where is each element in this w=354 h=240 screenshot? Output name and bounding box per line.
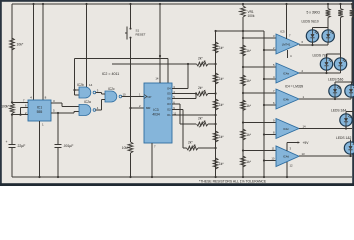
svg-text:IC2 = 4011: IC2 = 4011 <box>102 72 119 76</box>
svg-text:IC4 = LM339: IC4 = LM339 <box>285 85 304 89</box>
wire IC5 pin4 <box>287 50 289 58</box>
svg-text:IC5: IC5 <box>280 29 285 33</box>
wire feedback to gate IC2b <box>74 59 76 91</box>
svg-text:1k*: 1k* <box>246 160 251 164</box>
wire left supply branch <box>11 4 13 102</box>
resistor ladder1 1k e <box>213 158 218 169</box>
svg-text:100k*: 100k* <box>1 105 10 109</box>
svg-text:1k*: 1k* <box>246 49 251 53</box>
wire ladder2 vertical <box>242 31 244 177</box>
trimmer 2k row2 <box>197 92 209 96</box>
svg-text:LEDS 7&8: LEDS 7&8 <box>313 54 329 58</box>
node junction R1/pin7 <box>11 101 13 103</box>
wire to C1 <box>11 115 13 145</box>
wire feedback drop to IC3 top <box>167 59 169 84</box>
svg-text:O2: O2 <box>167 108 171 112</box>
svg-text:2k*: 2k* <box>198 86 203 90</box>
wire pair2 anode jog <box>327 53 341 55</box>
pin 1 wire to ground <box>39 121 41 177</box>
svg-text:IC3: IC3 <box>153 108 158 112</box>
op-amp IC4b <box>276 89 299 109</box>
svg-text:O1: O1 <box>167 113 171 117</box>
svg-text:4034: 4034 <box>152 113 160 117</box>
LED 5 <box>329 85 341 97</box>
svg-text:LEDS 9&10: LEDS 9&10 <box>302 20 319 24</box>
trimmer 2k row3 <box>197 122 209 126</box>
wire DAC output top <box>216 30 264 32</box>
wire O3 to row3 <box>172 103 180 105</box>
wire IC2 supply from rail <box>85 3 87 5</box>
svg-text:10k*: 10k* <box>17 43 24 47</box>
resistor R 390 c <box>351 3 353 5</box>
resistor ladder1 1k a <box>213 42 218 53</box>
LED 8 <box>334 58 346 70</box>
wire IC5 pin7 supply <box>285 3 287 5</box>
wire bus tap 3 <box>264 104 276 106</box>
svg-text:2k*: 2k* <box>188 140 193 144</box>
wire LED pair4 cathodes <box>345 126 347 129</box>
svg-text:IC2c: IC2c <box>108 87 115 91</box>
svg-text:O3: O3 <box>167 102 171 106</box>
capacitor C2 .001uF <box>57 113 59 144</box>
svg-text:IC1: IC1 <box>37 106 42 110</box>
wire pin5 node to gate IC2a <box>58 112 74 114</box>
resistor R3 10M <box>128 142 133 153</box>
resistor ladder2 1k b <box>241 75 246 86</box>
op-amp IC4d <box>276 146 299 167</box>
resistor ladder1 1k d <box>213 131 218 142</box>
svg-text:IC4c: IC4c <box>283 127 289 131</box>
wire O6 riser to row2 <box>172 98 196 100</box>
wire IC4c output <box>299 128 352 130</box>
svg-text:+: + <box>6 140 8 144</box>
resistor R 390 a <box>327 3 329 5</box>
wire O1 to ladder <box>172 114 216 116</box>
LED 9 <box>306 30 318 42</box>
LED 10 <box>322 30 334 42</box>
wire 555 pin8 from rail <box>42 3 44 5</box>
wire IC2b out to IC2c in <box>96 92 102 94</box>
wire IC4b output <box>299 98 351 100</box>
wire LED1 cathode <box>350 154 352 156</box>
svg-text:10M: 10M <box>122 146 129 150</box>
svg-text:1k*: 1k* <box>219 162 224 166</box>
wire ladder2 tap 2 <box>243 66 276 68</box>
svg-text:12: 12 <box>290 164 294 168</box>
wire IC4d pin12 ground <box>286 162 288 177</box>
resistor ladder1 1k c <box>213 99 218 110</box>
wire ladder2 tap 3 <box>243 92 276 94</box>
wire ladder2 tap 4 <box>243 122 276 124</box>
wire IC3 pin14 supply <box>159 3 161 5</box>
wire 0V bottom ground rail <box>12 176 352 178</box>
trimmer 2k row1 <box>197 62 209 66</box>
svg-text:2k*: 2k* <box>198 56 203 60</box>
svg-text:22µF: 22µF <box>18 144 26 148</box>
LED 7 <box>320 58 332 70</box>
svg-text:100k: 100k <box>248 14 255 18</box>
resistor ladder2 1k e <box>241 156 246 167</box>
resistor R 390 b <box>339 3 341 5</box>
wire IC5 output <box>299 44 328 46</box>
op-amp IC5 LM741 <box>276 34 299 54</box>
pin 3 output wire to gates <box>51 102 62 104</box>
svg-text:+9V: +9V <box>303 141 310 145</box>
resistor R1 10k <box>10 38 15 50</box>
wire LED pair1 cathodes <box>312 42 314 45</box>
resistor R2 100k <box>10 104 15 114</box>
switch S1 RESET <box>130 28 132 30</box>
wire gating feedback horizontal <box>75 58 169 60</box>
svg-text:IC4a: IC4a <box>283 71 289 75</box>
svg-text:1k*: 1k* <box>219 103 224 107</box>
wire IC2c out to IC3 clock <box>122 96 144 98</box>
svg-text:O5: O5 <box>167 92 171 96</box>
wire IC2a out to IC2c in <box>96 109 102 111</box>
LED 1 <box>350 140 352 143</box>
svg-text:*THESE RESISTORS ALL 1% TOLERA: *THESE RESISTORS ALL 1% TOLERANCE <box>199 180 267 184</box>
svg-text:11: 11 <box>272 146 275 150</box>
svg-text:.001µF: .001µF <box>63 144 73 148</box>
svg-text:IC4d: IC4d <box>283 155 289 159</box>
svg-text:LEDS 3&4: LEDS 3&4 <box>331 109 347 113</box>
svg-text:RESET: RESET <box>136 33 146 37</box>
wire pair3 anode jog <box>335 81 352 83</box>
op 555 timer IC1 <box>28 100 51 121</box>
wire pair1 anode jog <box>313 26 329 28</box>
svg-text:1k*: 1k* <box>246 104 251 108</box>
svg-text:O6: O6 <box>167 97 171 101</box>
wire S1 from rail <box>129 3 131 5</box>
resistor ladder2 1k d <box>241 129 246 140</box>
svg-text:555: 555 <box>37 110 43 114</box>
svg-text:2k*: 2k* <box>198 116 203 120</box>
pin 2 wire <box>12 114 28 116</box>
potentiometer VR1 100k <box>242 3 244 5</box>
wire S1 to MR and 10M <box>130 38 132 142</box>
wire O2 to row4 <box>172 109 183 111</box>
svg-text:IC2a: IC2a <box>84 100 91 104</box>
wire comparator signal bus <box>263 31 265 177</box>
wire LED pair3 cathodes <box>334 97 336 99</box>
node junction R2/pin2 <box>11 114 13 116</box>
wire C2 to ground <box>57 148 59 177</box>
svg-text:LEDS 1&2: LEDS 1&2 <box>336 136 352 140</box>
svg-text:IC2b: IC2b <box>77 83 84 87</box>
wire ladder2 tap 1 <box>243 37 276 39</box>
svg-text:LEDS 5&6: LEDS 5&6 <box>328 78 344 82</box>
svg-text:MR: MR <box>146 106 150 110</box>
frame border <box>0 0 354 186</box>
svg-text:10: 10 <box>271 156 275 160</box>
supply arrow +9V <box>286 143 288 152</box>
resistor ladder2 1k c <box>241 100 246 111</box>
svg-text:1k*: 1k* <box>246 79 251 83</box>
wire bus tap 4 <box>264 134 276 136</box>
svg-text:LM741: LM741 <box>282 42 291 46</box>
wire IC4a output <box>299 72 341 74</box>
gate IC2c NAND <box>105 91 117 102</box>
svg-text:O4: O4 <box>167 87 171 91</box>
svg-text:5 x 390Ω: 5 x 390Ω <box>307 11 321 15</box>
svg-text:1k*: 1k* <box>219 46 224 50</box>
svg-text:1k*: 1k* <box>219 135 224 139</box>
wire O5 to row2 <box>172 93 196 95</box>
op-amp IC4c <box>276 119 299 139</box>
resistor ladder2 1k a <box>241 45 246 56</box>
wire IC4d output <box>299 155 352 157</box>
svg-text:CP: CP <box>148 95 152 99</box>
wire pair4 anode jog <box>346 110 354 112</box>
wire row1 to trimmer <box>112 63 197 65</box>
pin 5 wire <box>51 112 58 114</box>
wire bus tap 5 <box>264 160 276 162</box>
svg-text:10: 10 <box>123 92 127 96</box>
wire +9V top supply rail <box>12 3 352 5</box>
svg-text:1k*: 1k* <box>246 133 251 137</box>
svg-text:1k*: 1k* <box>219 77 224 81</box>
wire ladder1 vertical <box>215 31 217 177</box>
wire bus tap 1 <box>264 49 276 51</box>
wire O4 riser to row1 <box>172 88 188 90</box>
wire C1 to ground rail <box>11 148 13 177</box>
wire LED pair2 cathodes <box>326 70 328 73</box>
gate IC2b NAND <box>79 87 91 98</box>
LED 6 <box>345 85 354 97</box>
svg-text:14: 14 <box>303 124 307 128</box>
wire bus tap 2 <box>264 78 276 80</box>
gate IC2a NAND <box>79 105 91 116</box>
op-amp IC4a <box>276 63 299 83</box>
svg-text:14: 14 <box>89 83 93 87</box>
pin 7 wire <box>12 101 28 103</box>
wire ladder2 tap 5 <box>243 150 276 152</box>
capacitor C1 22uF <box>8 143 15 145</box>
pin 6 wire jog <box>21 107 29 109</box>
svg-text:14: 14 <box>155 77 159 81</box>
svg-text:IC4b: IC4b <box>283 97 289 101</box>
wire 555 pin4 from rail <box>32 3 34 5</box>
wire IC3 pin7 to ground <box>151 143 153 177</box>
LED 3 <box>340 114 352 126</box>
trimmer 2k row4 <box>187 146 199 150</box>
op counter IC3 4034 <box>144 83 172 143</box>
svg-text:13: 13 <box>302 152 306 156</box>
wire 10M to ground <box>130 153 132 177</box>
wire MR <box>131 107 145 109</box>
resistor ladder1 1k b <box>213 73 218 84</box>
